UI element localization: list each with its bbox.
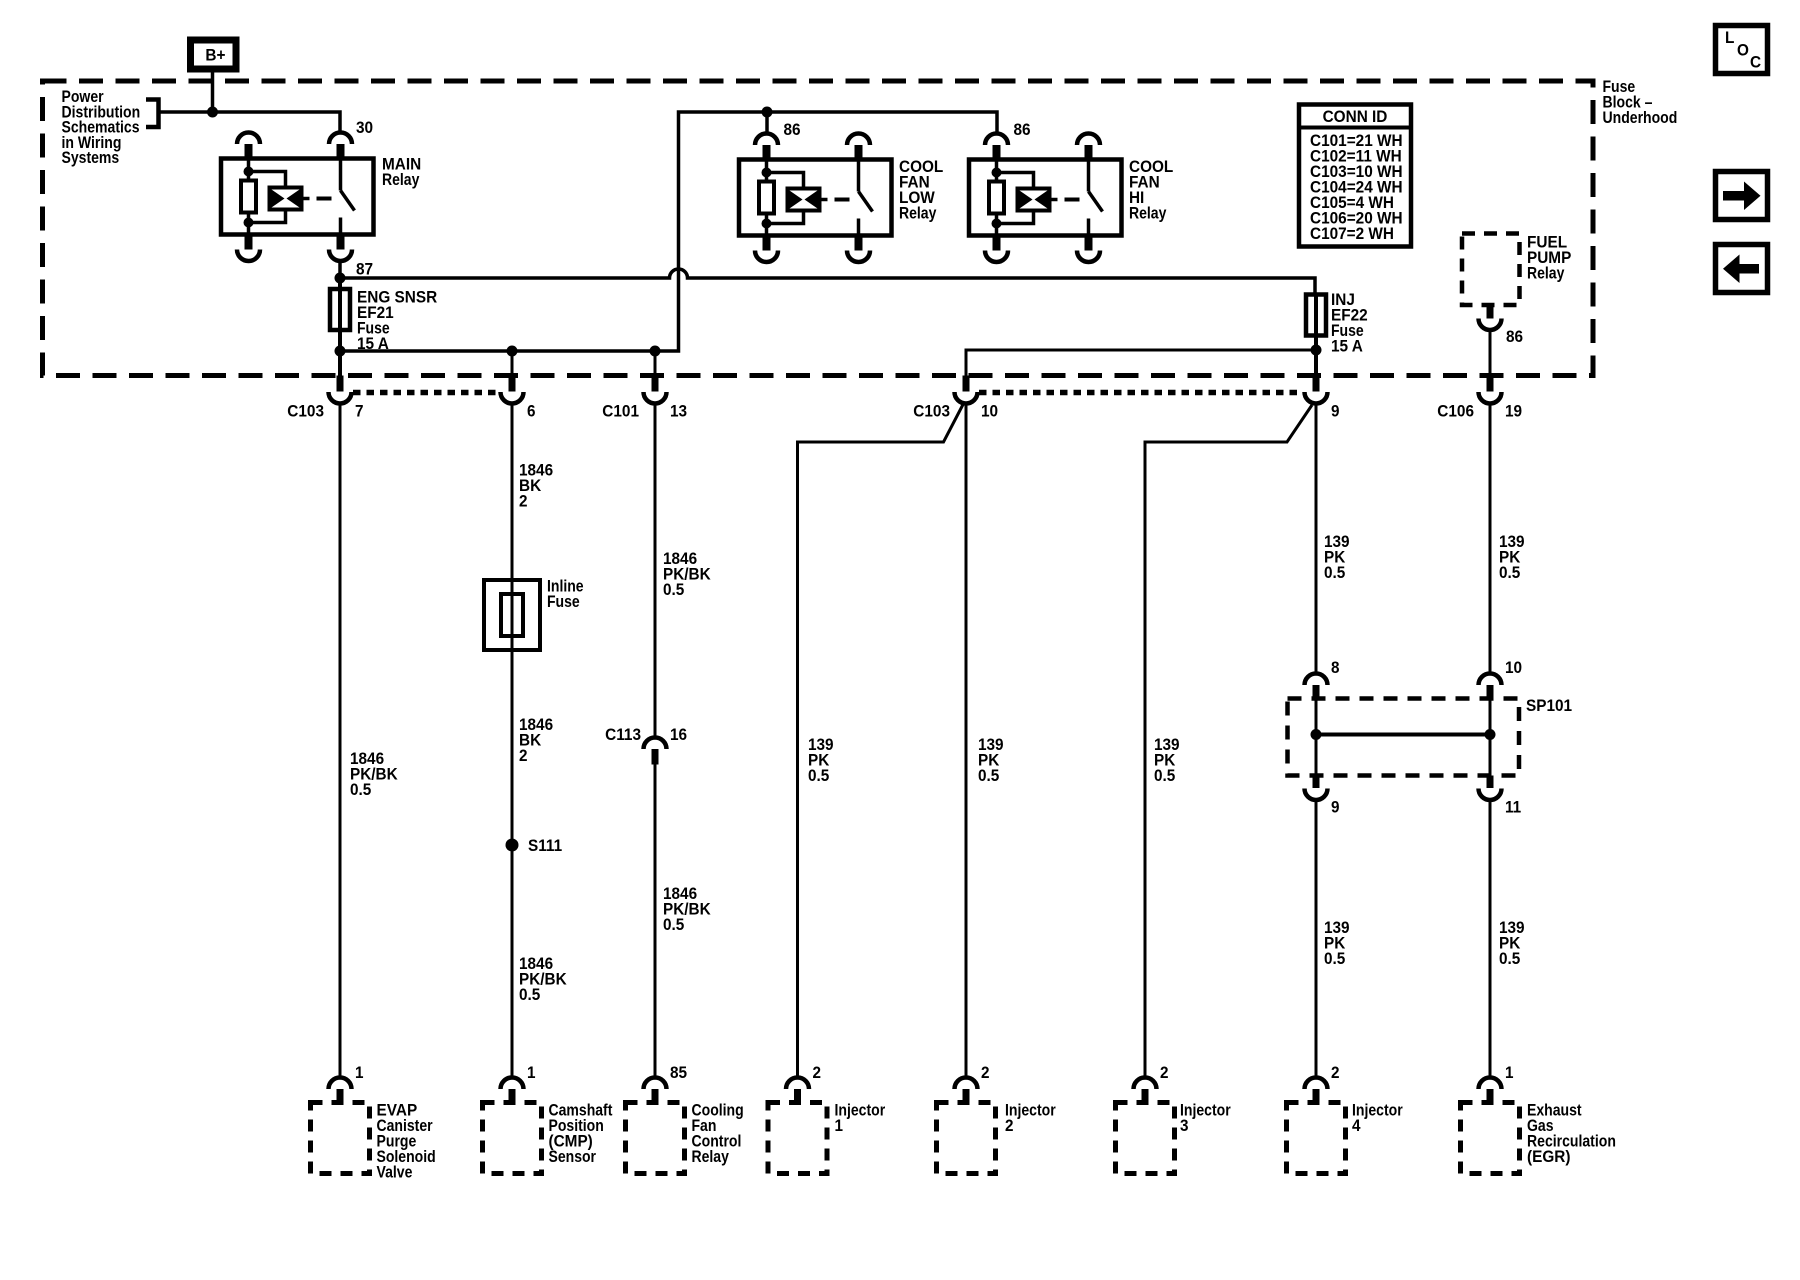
svg-text:87: 87 [356,260,373,279]
wire: relay output bus y278 with hop over B+ riser, to EF22 fuse [340,269,1315,295]
node: SP101 right junction [1485,729,1496,740]
component: Camshaft Position (CMP) Sensor, pin 1 [501,1078,524,1090]
dotted connector group line C103 (pins 10-9) [979,390,1303,396]
svg-text:0.5: 0.5 [978,766,999,785]
connector C? pin 9 at fuse block boundary [1313,376,1320,392]
node: bus junction at EF21 output [335,346,346,357]
svg-text:C106: C106 [1437,402,1474,421]
relay LOW: coil pin connector (top left) [755,134,778,146]
svg-text:85: 85 [670,1063,687,1082]
svg-text:SP101: SP101 [1526,696,1572,715]
svg-text:19: 19 [1505,402,1522,421]
svg-text:86: 86 [1014,120,1031,139]
component: Injector 4, pin 2 [1305,1078,1328,1090]
svg-text:Systems: Systems [62,148,120,167]
svg-text:2: 2 [981,1063,990,1082]
wire: B+ drop [211,73,215,113]
dotted connector group line C103 (pins 7-6) [353,390,500,396]
connector C103 pin 10 at fuse block boundary [963,376,970,392]
svg-text:L: L [1725,28,1734,47]
connector C103 pin 7 at fuse block boundary [337,376,344,392]
relay HI: switch contact [1087,160,1091,192]
relay MAIN: actuating link (dashed) [317,197,332,201]
svg-text:Relay: Relay [382,170,420,189]
wire: B+ feed bus (left segment) to MAIN relay pin 30 [160,112,340,133]
relay LOW: resistor (in parallel with coil) [765,160,769,184]
svg-text:Relay: Relay [1527,264,1565,283]
relay MAIN: switch contact [339,159,343,191]
wire: SP101 internal left [1315,699,1318,776]
svg-text:10: 10 [981,402,998,421]
relay HI: body outline [969,160,1122,236]
svg-text:0.5: 0.5 [1499,563,1520,582]
svg-text:Fuse: Fuse [547,592,580,611]
wire: C106 pin 19 down to SP101 pin 10 (139 PK 0.5) [1489,404,1492,674]
relay MAIN: body outline [221,159,374,235]
wire: inline fuse through-wire [511,580,514,1078]
Inline Fuse [484,580,540,650]
wire: bus y350 from EF22 to C103 pin 10 [966,350,1316,376]
svg-text:0.5: 0.5 [1499,949,1520,968]
svg-text:Valve: Valve [377,1163,413,1182]
connector SP101 pin 11 [1487,776,1494,789]
relay LOW: actuating link (dashed) [835,198,850,202]
svg-text:CONN ID: CONN ID [1323,107,1388,126]
svg-text:8: 8 [1331,658,1340,677]
component: EVAP Canister Purge Solenoid Valve, pin 1 [329,1078,352,1090]
connector C113 pin 16 in-line [644,738,667,749]
svg-text:C103: C103 [287,402,324,421]
connector SP101 pin 10 [1479,674,1502,686]
relay HI: switch pin connector (top right) [1077,134,1100,146]
relay HI: resistor (in parallel with coil) [995,160,999,184]
svg-text:0.5: 0.5 [1154,766,1175,785]
svg-text:2: 2 [519,746,528,765]
svg-text:86: 86 [784,120,801,139]
wire: SP101 pin 11 to EGR valve (139 PK 0.5) [1489,800,1492,1078]
svg-text:Sensor: Sensor [549,1147,597,1166]
svg-text:0.5: 0.5 [663,580,684,599]
svg-text:0.5: 0.5 [519,985,540,1004]
svg-text:Relay: Relay [1129,204,1167,223]
component: Exhaust Gas Recirculation (EGR), pin 1 [1479,1078,1502,1090]
icon: arrow left box [1716,245,1768,293]
svg-text:Underhood: Underhood [1603,108,1678,127]
svg-text:1: 1 [835,1116,844,1135]
connector SP101 pin 8 [1305,674,1328,686]
node: pin 87 output junction [335,273,346,284]
node: fan relay feed junction [762,107,773,118]
relay MAIN: coil element and parallel wiring [249,172,286,188]
relay MAIN: coil pin connector (bottom left) [245,235,253,250]
wire: pin 9 down to splice pack SP101 pin 8 (139 PK 0.5) [1315,404,1318,674]
pin 86 connector of FUEL PUMP relay [1487,305,1494,319]
relay MAIN: switch pin connector (bottom right) [337,235,345,250]
connector C? pin 6 at fuse block boundary [509,376,516,392]
svg-text:1: 1 [527,1063,536,1082]
connector C106 pin 19 at fuse block boundary [1487,376,1494,392]
connector C101 pin 13 at fuse block boundary [652,376,659,392]
svg-text:7: 7 [355,402,364,421]
svg-text:2: 2 [1160,1063,1169,1082]
svg-text:C113: C113 [605,725,641,744]
svg-text:Relay: Relay [899,204,937,223]
wire: drop to COOL FAN LOW relay pin 86 [765,112,769,133]
wire: SP101 internal right [1489,699,1492,776]
svg-text:C107=2 WH: C107=2 WH [1310,224,1394,243]
svg-text:(EGR): (EGR) [1527,1147,1571,1166]
relay LOW: switch pin connector (bottom right) [855,236,863,251]
relay LOW: switch contact [857,160,861,192]
svg-text:86: 86 [1506,327,1523,346]
svg-text:13: 13 [670,402,687,421]
svg-text:15 A: 15 A [1331,337,1363,356]
wire: FUEL PUMP relay pin 86 down to C106 pin 19 [1489,330,1492,376]
svg-text:2: 2 [813,1063,822,1082]
icon: arrow right box [1716,172,1768,220]
svg-text:S111: S111 [528,836,562,855]
node: SP101 left junction [1311,729,1322,740]
wire: EF22 output down to pin 9 [1314,295,1318,377]
splice S111 [506,839,519,852]
svg-text:6: 6 [527,402,536,421]
wire: C103 pin 7 to EVAP valve pin 1 (1846 PK/BK 0.5) [339,404,342,1078]
relay MAIN: coil pin connector (top left) [237,133,260,145]
svg-text:2: 2 [1005,1116,1014,1135]
wire: drop to C103 pin 6 [511,351,514,376]
svg-text:Relay: Relay [692,1147,730,1166]
relay HI: coil element and parallel wiring [997,173,1034,189]
svg-text:16: 16 [670,725,687,744]
svg-text:9: 9 [1331,798,1340,817]
relay FUEL PUMP Relay (dashed outline) [1462,234,1520,306]
svg-text:2: 2 [1331,1063,1340,1082]
relay HI: switch pin connector (bottom right) [1085,236,1093,251]
component: Cooling Fan Control Relay, pin 85 [644,1078,667,1090]
svg-text:2: 2 [519,492,528,511]
svg-text:B+: B+ [205,46,225,65]
wire: injector 1 feed from C103 pin 10 (139 PK 0.5) [798,405,964,1078]
splice pack SP101 (dashed outline) [1288,699,1520,776]
svg-text:0.5: 0.5 [350,780,371,799]
wire: drop to C101 pin 13 [654,351,657,376]
relay LOW: switch pin connector (top right) [847,134,870,146]
svg-text:11: 11 [1505,798,1521,817]
wire: C113 to cooling fan control relay pin 85 [654,765,657,1078]
svg-text:C103: C103 [913,402,950,421]
table CONN ID [1299,105,1411,247]
svg-text:0.5: 0.5 [663,915,684,934]
wire: C103 pin 6 to CMP sensor pin 1 (1846 BK 2) [511,404,514,581]
relay LOW: coil pin connector (bottom left) [763,236,771,251]
component: Injector 2, pin 2 [955,1078,978,1090]
svg-text:30: 30 [356,118,373,137]
bracket: schematics reference [146,100,159,128]
wire: SP101 bus bar [1316,733,1490,737]
svg-text:3: 3 [1180,1116,1189,1135]
relay HI: coil pin connector (top left) [985,134,1008,146]
svg-text:C: C [1750,53,1761,72]
svg-text:4: 4 [1352,1116,1361,1135]
node: bus junction to C103 pin 6 [507,346,518,357]
component: Injector 3, pin 2 [1134,1078,1157,1090]
wire: MAIN relay pin 87 to node [338,261,342,289]
fuse block boundary: Fuse Block - Underhood (dashed) [43,81,1594,376]
wire: injector 3 feed from pin 9 (139 PK 0.5) [1145,405,1312,1078]
node: bus junction to C101 pin 13 [650,346,661,357]
svg-text:C101: C101 [602,402,639,421]
wire: fused bus y351 from EF21 to B+ riser, up and over to cooling fan relays [340,112,997,351]
relay MAIN: resistor (in parallel with coil) [247,159,251,183]
svg-text:1: 1 [1505,1063,1514,1082]
svg-text:1: 1 [355,1063,364,1082]
node: EF22 output junction [1311,345,1322,356]
fuse INJ EF22 15A [1306,295,1326,336]
node: B+ junction [207,107,218,118]
svg-text:9: 9 [1331,402,1340,421]
svg-text:10: 10 [1505,658,1522,677]
wire: injector 2 feed from C103 pin 10 (139 PK 0.5) [965,404,968,1078]
relay HI: coil pin connector (bottom left) [993,236,1001,251]
relay MAIN: switch pin connector (top right) [329,133,352,145]
wire: C101 pin 13 to C113 (1846 PK/BK 0.5) [654,404,657,738]
icon: LOC box [1716,26,1768,74]
relay HI: actuating link (dashed) [1065,198,1080,202]
fuse ENG SNSR EF21 15A [330,289,350,330]
svg-text:0.5: 0.5 [1324,949,1345,968]
wire: SP101 pin 9 to injector 4 (139 PK 0.5) [1315,800,1318,1078]
connector SP101 pin 9 [1313,776,1320,789]
relay LOW: coil element and parallel wiring [767,173,804,189]
wire: through EF21 fuse down to C103 pin 7 [338,278,342,376]
svg-text:0.5: 0.5 [1324,563,1345,582]
svg-text:0.5: 0.5 [808,766,829,785]
battery feed terminal B+ [191,40,237,69]
relay LOW: body outline [739,160,892,236]
component: Injector 1, pin 2 [786,1078,809,1090]
svg-text:O: O [1737,41,1749,60]
